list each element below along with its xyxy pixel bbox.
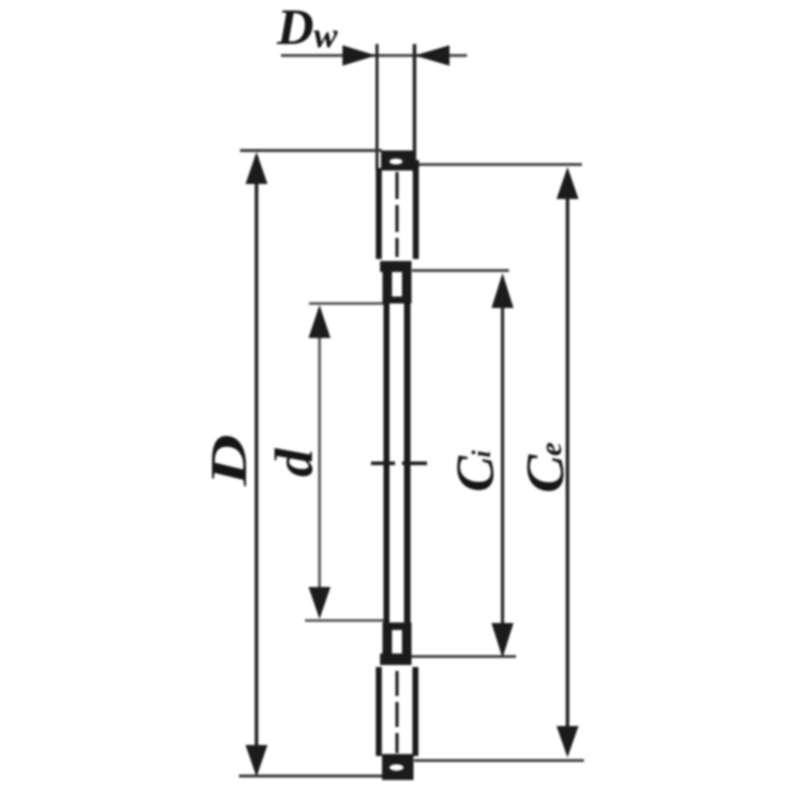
center tick right	[402, 462, 427, 466]
arrowhead Ci down	[492, 623, 514, 658]
bottom pocket band	[380, 654, 412, 666]
dimension line Dw	[281, 54, 467, 57]
top roller right wall	[413, 168, 419, 259]
svg-text:C: C	[445, 455, 505, 492]
extension line Dw-left vertical	[376, 44, 379, 170]
top pocket bottom cap	[383, 297, 412, 304]
arrowhead Ci up	[492, 273, 514, 308]
dimension line Ci vertical	[501, 278, 504, 653]
arrowhead Dw left	[415, 45, 450, 66]
top roller cap	[381, 151, 414, 171]
bottom roller left wall	[376, 667, 382, 756]
extension line Ci bottom	[410, 655, 516, 658]
bottom pocket right bar	[402, 630, 412, 654]
extension line d top	[309, 302, 384, 305]
extension line Ce bottom	[414, 759, 584, 762]
label Dw	[276, 0, 339, 56]
arrowhead d down	[309, 587, 331, 619]
bottom roller right wall	[412, 667, 418, 756]
dimension line D vertical	[255, 156, 259, 772]
extension line D bottom	[239, 775, 384, 778]
extension line Dw-right vertical	[413, 44, 417, 172]
top roller centerline (dashed)	[395, 172, 398, 257]
svg-text:d: d	[264, 447, 323, 477]
svg-text:D: D	[276, 0, 314, 56]
center tick left	[371, 462, 395, 466]
extension line Ci top	[412, 269, 509, 272]
arrowhead D up	[246, 152, 268, 184]
arrowhead d up	[309, 305, 331, 338]
svg-text:i: i	[467, 450, 496, 458]
bottom roller centerline (dashed)	[395, 671, 398, 753]
svg-text:D: D	[200, 434, 258, 487]
top pocket left bar	[383, 272, 393, 297]
extension line d bottom	[305, 619, 384, 622]
cage strip left line	[384, 304, 390, 623]
top pocket right bar	[402, 272, 412, 297]
label Ce	[515, 454, 575, 493]
label Ci	[445, 455, 505, 492]
svg-text:e: e	[533, 442, 568, 456]
extension line D top	[240, 149, 382, 152]
cage strip right line	[404, 304, 411, 623]
bottom roller cap	[382, 754, 414, 780]
label d	[264, 447, 323, 477]
dimension line Ce vertical	[566, 172, 570, 752]
arrowhead Dw right	[343, 45, 377, 66]
bottom pocket left bar	[383, 630, 393, 654]
dimension line d vertical	[318, 308, 321, 616]
svg-text:w: w	[314, 15, 339, 55]
top pocket band	[380, 261, 412, 272]
svg-text:C: C	[515, 454, 575, 493]
arrowhead Ce down	[557, 726, 579, 758]
arrowhead Ce up	[557, 167, 579, 199]
bottom pocket top cap	[383, 623, 412, 631]
label D	[200, 434, 258, 487]
extension line Ce top	[414, 163, 582, 166]
top roller left wall	[376, 168, 382, 259]
arrowhead D down	[246, 745, 268, 777]
